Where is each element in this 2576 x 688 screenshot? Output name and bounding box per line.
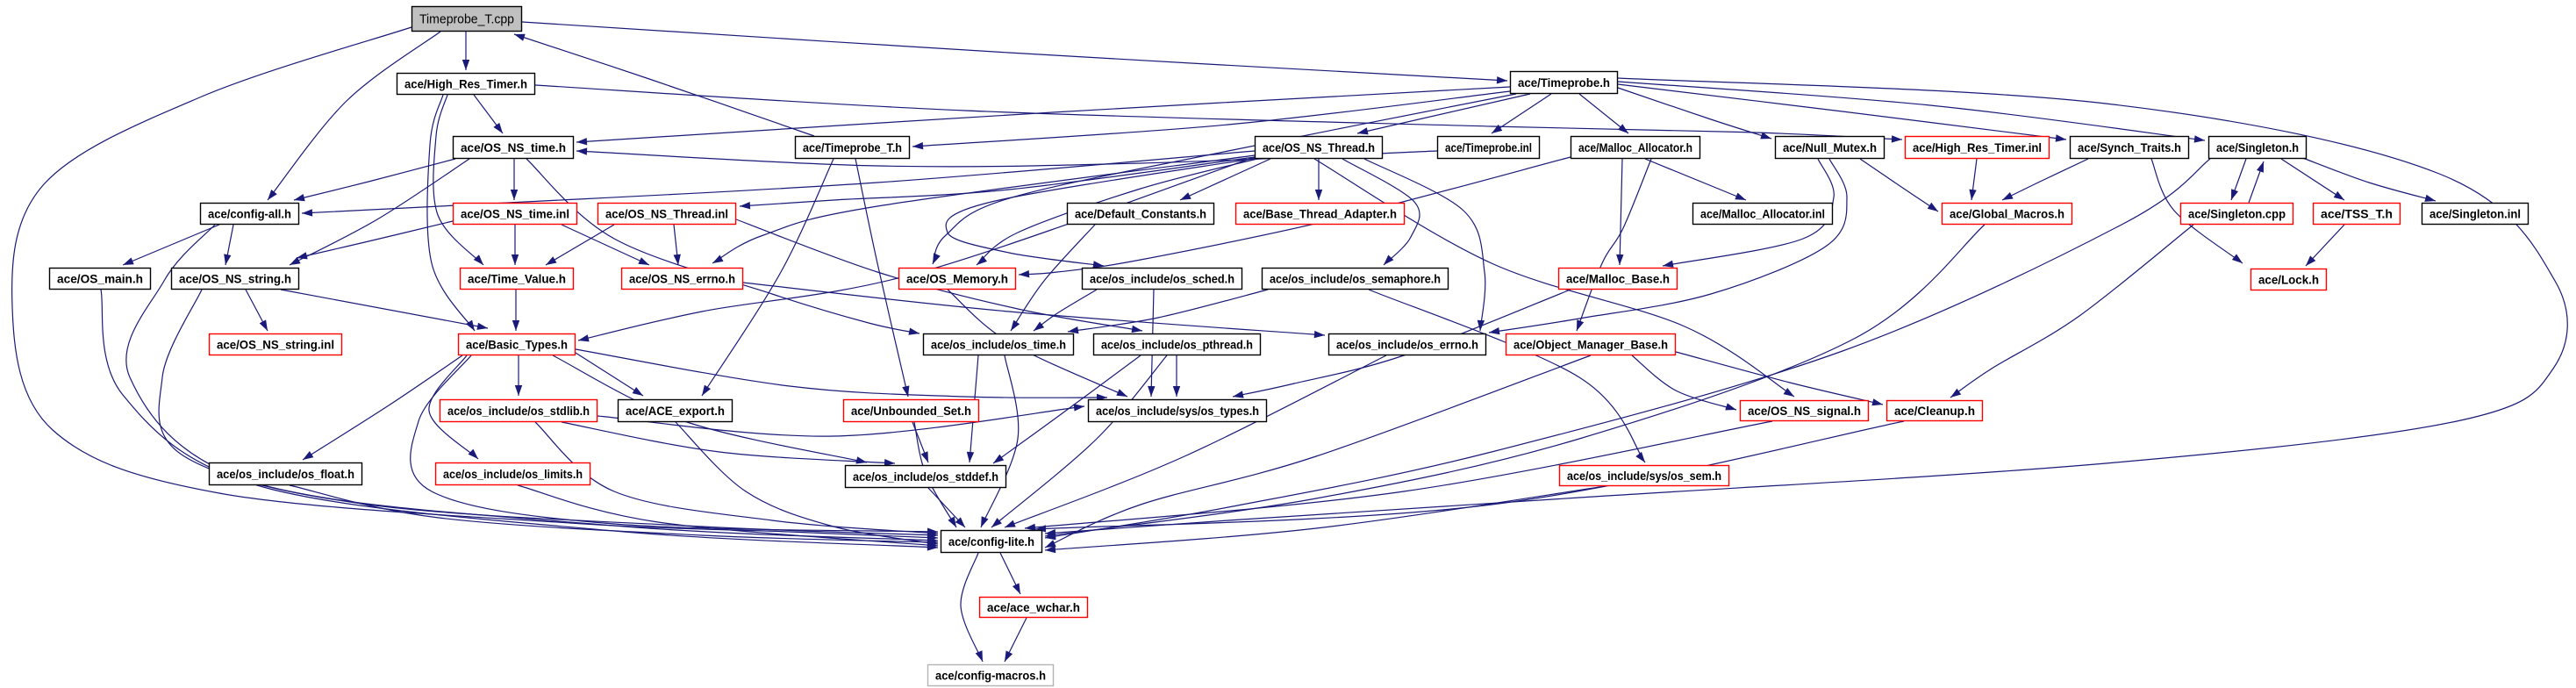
- svg-text:ace/OS_NS_errno.h: ace/OS_NS_errno.h: [629, 272, 735, 286]
- node ace/Cleanup.h: [1887, 401, 1983, 421]
- wire singleton->configlite: [1045, 159, 2210, 540]
- wire malloca->omb: [1577, 159, 1651, 331]
- wire nsthread->osmemory: [977, 158, 1261, 265]
- node ace/os_include/os_semaphore.h: [1263, 269, 1449, 290]
- wire defconst->ostime: [1011, 225, 1095, 331]
- wire ossem->configlite: [1045, 486, 1606, 553]
- wire nstimeinl->nserrno: [562, 225, 649, 265]
- wire osmain->configlite: [101, 290, 938, 551]
- wire nullm->globalm: [1860, 159, 1938, 211]
- wire osstddef->configlite: [928, 488, 965, 527]
- wire nullm->oserrno: [1489, 159, 1847, 334]
- wire tp->nsthread: [1357, 94, 1530, 134]
- svg-text:ace/os_include/os_stdlib.h: ace/os_include/os_stdlib.h: [447, 404, 590, 418]
- svg-text:ace/os_include/sys/os_types.h: ace/os_include/sys/os_types.h: [1096, 404, 1259, 418]
- wire nstime->configall: [294, 159, 455, 201]
- wire nstime->ostime: [526, 159, 919, 335]
- wire tp->malloca: [1579, 94, 1628, 133]
- node ace/os_include/os_errno.h: [1329, 334, 1486, 355]
- svg-text:ace/os_include/os_time.h: ace/os_include/os_time.h: [931, 338, 1066, 352]
- wire hrt->timevalue: [433, 95, 483, 265]
- wire tpinl->nstime: [576, 147, 1437, 167]
- wire aceexport->configlite: [676, 422, 938, 546]
- wire unbounded->configlite: [914, 422, 956, 527]
- node ace/High_Res_Timer.h: [397, 74, 535, 95]
- wire basictypes->osstddef: [553, 355, 867, 464]
- wire tp->synch: [1618, 84, 2066, 142]
- wire cleanup->configlite: [1035, 421, 1904, 533]
- wire nsstring->nsstringinl: [246, 290, 268, 331]
- svg-text:ace/Timeprobe_T.h: ace/Timeprobe_T.h: [803, 140, 902, 154]
- svg-text:ace/Base_Thread_Adapter.h: ace/Base_Thread_Adapter.h: [1243, 207, 1397, 221]
- svg-text:ace/os_include/os_sched.h: ace/os_include/os_sched.h: [1090, 272, 1234, 286]
- svg-text:ace/config-all.h: ace/config-all.h: [208, 207, 291, 221]
- node ace/Default_Constants.h: [1068, 204, 1214, 225]
- svg-text:ace/Malloc_Allocator.h: ace/Malloc_Allocator.h: [1578, 140, 1692, 154]
- svg-text:ace/Timeprobe.h: ace/Timeprobe.h: [1518, 75, 1610, 90]
- wire ospthread->osstddef: [993, 355, 1141, 463]
- wire tpt->aceexport: [702, 159, 834, 396]
- wire nstimeinl->timevalue: [512, 225, 519, 265]
- wire ospthread->ostypes: [1173, 355, 1180, 397]
- svg-text:ace/os_include/os_errno.h: ace/os_include/os_errno.h: [1336, 338, 1478, 352]
- node ace/Timeprobe.h: [1511, 72, 1618, 94]
- wire root->hrt: [462, 32, 469, 70]
- wire ossem4->ossem: [1369, 290, 1645, 462]
- svg-text:ace/Cleanup.h: ace/Cleanup.h: [1894, 404, 1975, 418]
- wire configall->configlite: [126, 225, 938, 544]
- wire configlite->acewchar: [1000, 553, 1020, 594]
- svg-text:ace/High_Res_Timer.inl: ace/High_Res_Timer.inl: [1913, 140, 2042, 154]
- svg-text:ace/Synch_Traits.h: ace/Synch_Traits.h: [2078, 140, 2181, 154]
- node ace/Base_Thread_Adapter.h: [1236, 204, 1405, 225]
- wire ospthread->configlite: [991, 355, 1167, 527]
- wire nsstring->basictypes: [281, 290, 488, 330]
- node ace/os_include/os_stdlib.h: [440, 400, 597, 422]
- wire nsthreadinl->timevalue: [546, 225, 614, 265]
- node ace/OS_NS_errno.h: [622, 269, 743, 290]
- wire osstdlib->configlite: [535, 422, 938, 536]
- wire root->configall: [268, 32, 440, 200]
- node ace/Singleton.cpp: [2181, 204, 2293, 225]
- svg-text:ace/ace_wchar.h: ace/ace_wchar.h: [987, 600, 1080, 614]
- svg-text:ace/OS_NS_Thread.h: ace/OS_NS_Thread.h: [1263, 140, 1375, 154]
- wire omb->nssignal: [1632, 355, 1736, 410]
- wire singleton->tsst: [2281, 159, 2344, 200]
- wire configall->osmain: [123, 225, 219, 265]
- svg-text:Timeprobe_T.cpp: Timeprobe_T.cpp: [419, 12, 514, 27]
- wire nserrno->oserrno: [743, 283, 1325, 338]
- svg-text:ace/OS_NS_string.h: ace/OS_NS_string.h: [179, 272, 291, 286]
- wire acewchar->configmacros: [1005, 618, 1027, 662]
- wire nsthread->configall: [302, 151, 1255, 217]
- svg-text:ace/Singleton.h: ace/Singleton.h: [2216, 140, 2299, 154]
- node ace/os_include/sys/os_types.h: [1089, 400, 1267, 422]
- node ace/OS_Memory.h: [899, 269, 1016, 290]
- node ace/config-lite.h: [941, 531, 1042, 553]
- node ace/OS_NS_time.inl: [454, 204, 577, 225]
- svg-text:ace/Default_Constants.h: ace/Default_Constants.h: [1075, 207, 1206, 221]
- wire hrt->hrtinl: [535, 85, 1902, 143]
- svg-text:ace/OS_Memory.h: ace/OS_Memory.h: [906, 272, 1008, 286]
- svg-text:ace/Global_Macros.h: ace/Global_Macros.h: [1950, 207, 2064, 221]
- svg-text:ace/OS_NS_time.h: ace/OS_NS_time.h: [461, 140, 566, 154]
- node ace/Unbounded_Set.h: [844, 400, 979, 422]
- wire nsthread->nsthreadinl: [740, 157, 1255, 209]
- svg-text:ace/ACE_export.h: ace/ACE_export.h: [626, 404, 725, 418]
- wire malloca->mallocainl: [1645, 159, 1746, 200]
- node ace/Singleton.inl: [2422, 204, 2529, 225]
- wire tp->singleton: [1618, 82, 2205, 143]
- wire nsthreadinl->nserrno: [674, 225, 681, 265]
- wire hrtinl->globalm: [1969, 159, 1977, 200]
- wire basictypes->ostypes: [576, 349, 1107, 401]
- node ace/OS_main.h: [50, 269, 151, 290]
- svg-text:ace/config-lite.h: ace/config-lite.h: [948, 534, 1034, 548]
- wire root->tp: [522, 22, 1507, 84]
- wire tpt->unbounded: [855, 159, 909, 397]
- wire oserrno->configlite: [1005, 355, 1386, 527]
- node ace/config-macros.h: [928, 665, 1054, 686]
- svg-text:ace/config-macros.h: ace/config-macros.h: [935, 669, 1046, 683]
- svg-text:ace/os_include/os_pthread.h: ace/os_include/os_pthread.h: [1101, 338, 1253, 352]
- wire osfloat->configlite: [290, 485, 938, 546]
- wire nsthreadinl->ospthread: [736, 219, 1142, 333]
- wire tp->osmemory: [933, 94, 1516, 264]
- wire nsthread->ossem4: [1342, 159, 1420, 265]
- wire nstime->nsstring: [290, 159, 469, 265]
- node ace/Synch_Traits.h: [2071, 137, 2189, 159]
- wire ossched->ostypes: [1148, 290, 1155, 397]
- svg-text:ace/os_include/sys/os_sem.h: ace/os_include/sys/os_sem.h: [1567, 469, 1721, 483]
- node ace/Object_Manager_Base.h: [1506, 334, 1676, 355]
- wire nstime->nstimeinl: [511, 159, 518, 200]
- wire basictypes->oslimits: [429, 355, 478, 459]
- wire ossem4->ostime: [1068, 290, 1268, 333]
- wire malloca->mallocbase: [1616, 159, 1623, 265]
- wire nsthread->nserrno: [712, 155, 1255, 263]
- wire tp->tpinl: [1492, 94, 1551, 133]
- wire synch->lock: [2151, 159, 2243, 263]
- wire root->configlite: [12, 27, 938, 541]
- svg-text:ace/Time_Value.h: ace/Time_Value.h: [468, 272, 566, 286]
- svg-text:ace/OS_main.h: ace/OS_main.h: [57, 272, 143, 286]
- wire basictypes->osstdlib: [515, 355, 522, 396]
- svg-text:ace/Unbounded_Set.h: ace/Unbounded_Set.h: [851, 404, 971, 418]
- svg-text:ace/OS_NS_Thread.inl: ace/OS_NS_Thread.inl: [605, 207, 728, 221]
- svg-text:ace/os_include/os_float.h: ace/os_include/os_float.h: [217, 467, 354, 481]
- svg-text:ace/High_Res_Timer.h: ace/High_Res_Timer.h: [404, 77, 527, 91]
- node ace/ace_wchar.h: [980, 598, 1088, 618]
- wire osmemory->ostypes: [948, 290, 1127, 397]
- node ace/Basic_Types.h: [459, 334, 576, 355]
- wire synch->globalm: [2002, 159, 2088, 200]
- node ace/Time_Value.h: [461, 269, 574, 290]
- svg-text:ace/Object_Manager_Base.h: ace/Object_Manager_Base.h: [1513, 338, 1668, 352]
- wire tsst->lock: [2306, 225, 2344, 266]
- wire oslimits->configlite: [518, 485, 938, 548]
- node ace/OS_NS_string.h: [172, 269, 299, 290]
- wire hrt->nstime: [474, 95, 503, 133]
- wire omb->configlite: [1045, 355, 1591, 548]
- svg-text:ace/OS_NS_time.inl: ace/OS_NS_time.inl: [461, 207, 569, 221]
- wire ostime->osstddef: [967, 355, 978, 462]
- node ace/ACE_export.h: [619, 400, 733, 422]
- svg-text:ace/Malloc_Base.h: ace/Malloc_Base.h: [1566, 272, 1670, 286]
- wire hrt->basictypes: [427, 95, 475, 331]
- wire singleton->singletoninl: [2301, 157, 2436, 202]
- wire tp->tpt: [912, 91, 1510, 149]
- wire basictypes->osfloat: [303, 355, 462, 460]
- node ace/Null_Mutex.h: [1776, 137, 1885, 159]
- svg-text:ace/OS_NS_signal.h: ace/OS_NS_signal.h: [1748, 404, 1861, 418]
- wire ossched->ostime: [1034, 290, 1097, 331]
- wire timevalue->basictypes: [512, 290, 519, 331]
- node ace/Timeprobe.inl: [1438, 137, 1540, 159]
- wire nstimeinl->nsstring: [297, 221, 453, 259]
- wire tp->nstime: [576, 87, 1510, 145]
- svg-text:ace/TSS_T.h: ace/TSS_T.h: [2321, 207, 2393, 221]
- wire singletoncpp->singleton: [2249, 161, 2264, 203]
- svg-text:ace/os_include/os_stddef.h: ace/os_include/os_stddef.h: [853, 469, 998, 484]
- node ace/OS_NS_signal.h: [1741, 401, 1869, 421]
- node ace/os_include/os_limits.h: [436, 463, 590, 485]
- wire nsthread->defconst: [1180, 159, 1270, 200]
- node ace/os_include/os_stddef.h: [846, 466, 1006, 488]
- wire tpt->root: [514, 34, 814, 136]
- wire nssignal->configlite: [1025, 421, 1772, 531]
- node ace/Malloc_Base.h: [1559, 269, 1678, 290]
- node ace/OS_NS_string.inl: [210, 334, 342, 355]
- wire nsthread->basictypes: [578, 157, 1255, 341]
- svg-text:ace/Singleton.cpp: ace/Singleton.cpp: [2188, 207, 2286, 221]
- wire osstdlib->ostypes: [597, 404, 1084, 436]
- wire nsstring->configlite: [159, 290, 938, 539]
- node ace/Singleton.h: [2209, 137, 2307, 159]
- wire singleton->singletoncpp: [2231, 159, 2246, 200]
- node ace/Global_Macros.h: [1943, 204, 2072, 225]
- svg-text:ace/Malloc_Allocator.inl: ace/Malloc_Allocator.inl: [1700, 207, 1825, 221]
- svg-text:ace/Singleton.inl: ace/Singleton.inl: [2429, 207, 2521, 221]
- wire nsthread->ossched: [946, 158, 1257, 269]
- node ace/Malloc_Allocator.inl: [1693, 204, 1833, 225]
- node ace/Timeprobe_T.h: [796, 137, 910, 159]
- svg-text:ace/Basic_Types.h: ace/Basic_Types.h: [466, 338, 568, 352]
- svg-text:ace/os_include/os_limits.h: ace/os_include/os_limits.h: [443, 467, 583, 481]
- wire configlite->configmacros: [961, 553, 983, 662]
- node ace/os_include/os_pthread.h: [1094, 334, 1261, 355]
- node ace/OS_NS_Thread.h: [1256, 137, 1383, 159]
- wire unbounded->osstddef: [912, 422, 928, 462]
- wire basictypes->aceexport: [576, 353, 643, 396]
- wire nsthread->bta: [1315, 159, 1322, 200]
- wire globalm->configlite: [1045, 225, 1985, 539]
- node ace/OS_NS_time.h: [454, 137, 574, 159]
- svg-text:ace/Null_Mutex.h: ace/Null_Mutex.h: [1783, 140, 1877, 154]
- node ace/os_include/os_sched.h: [1083, 269, 1242, 290]
- node ace/High_Res_Timer.inl: [1906, 137, 2050, 159]
- wire ostime->configlite: [981, 355, 1019, 527]
- wire tp->configlite: [1045, 78, 2567, 536]
- node ace/Lock.h: [2251, 269, 2327, 290]
- node ace/OS_NS_Thread.inl: [598, 204, 736, 225]
- wire malloca->osmemory: [1019, 157, 1571, 277]
- svg-text:ace/Lock.h: ace/Lock.h: [2258, 273, 2319, 287]
- node ace/os_include/os_float.h: [210, 463, 362, 485]
- wire tp->nullm: [1618, 88, 1771, 139]
- wire singletoncpp->cleanup: [1950, 225, 2193, 398]
- wire basictypes->configlite: [411, 355, 938, 535]
- wire nullm->mallocbase: [1663, 159, 1834, 268]
- wire osstdlib->osstddef: [562, 422, 895, 466]
- svg-text:ace/OS_NS_string.inl: ace/OS_NS_string.inl: [217, 338, 334, 352]
- wire omb->cleanup: [1676, 352, 1883, 405]
- svg-text:ace/os_include/os_semaphore.h: ace/os_include/os_semaphore.h: [1270, 272, 1441, 286]
- wire nsthread->nssignal: [1314, 159, 1794, 397]
- node ace/os_include/os_time.h: [924, 334, 1074, 355]
- node ace/TSS_T.h: [2314, 204, 2401, 225]
- node Timeprobe_T.cpp: [412, 7, 522, 32]
- wire nsthread->oserrno: [1364, 159, 1485, 331]
- wire configall->nsstring: [224, 225, 233, 265]
- node ace/Malloc_Allocator.h: [1571, 137, 1700, 159]
- node ace/config-all.h: [201, 204, 299, 225]
- wire mallocbase->ostypes: [1233, 290, 1571, 398]
- node ace/os_include/sys/os_sem.h: [1560, 466, 1729, 486]
- svg-text:ace/Timeprobe.inl: ace/Timeprobe.inl: [1445, 140, 1532, 154]
